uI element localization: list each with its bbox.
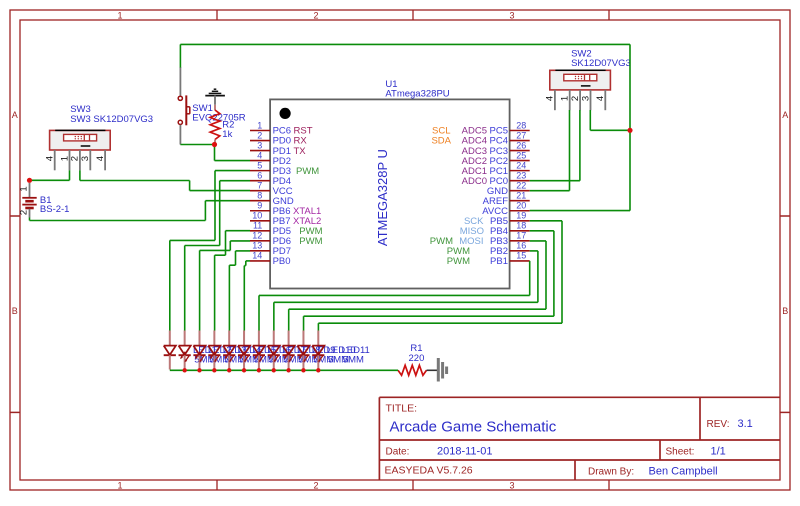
svg-text:4: 4 [257,150,262,160]
svg-text:ATmega328PU: ATmega328PU [385,88,449,99]
svg-text:4: 4 [545,96,556,101]
svg-text:1k: 1k [222,129,232,140]
svg-text:26: 26 [516,140,526,150]
svg-text:TITLE:: TITLE: [386,402,418,414]
svg-text:17: 17 [516,231,526,241]
svg-text:3: 3 [80,156,91,161]
svg-text:PB0: PB0 [273,256,291,267]
svg-text:1: 1 [117,480,122,490]
svg-text:Sheet:: Sheet: [666,447,695,458]
svg-text:Date:: Date: [386,447,410,458]
svg-text:4: 4 [595,96,606,101]
svg-text:4: 4 [45,156,56,161]
svg-text:2: 2 [70,156,81,161]
svg-text:13: 13 [252,241,262,251]
svg-text:9: 9 [257,201,262,211]
svg-text:19: 19 [516,211,526,221]
svg-text:12: 12 [252,231,262,241]
svg-text:SDA: SDA [431,136,451,147]
svg-text:B: B [12,306,18,316]
svg-text:PB1: PB1 [490,256,508,267]
svg-text:8: 8 [257,191,262,201]
svg-text:23: 23 [516,170,526,180]
svg-text:2: 2 [313,480,318,490]
svg-text:3: 3 [509,480,514,490]
svg-text:2: 2 [313,10,318,20]
svg-text:4: 4 [95,156,106,161]
svg-text:20: 20 [516,201,526,211]
svg-text:2: 2 [257,130,262,140]
svg-text:3: 3 [509,10,514,20]
svg-text:220: 220 [409,353,425,364]
svg-text:3.1: 3.1 [738,418,753,430]
svg-text:PWM: PWM [447,256,470,267]
svg-text:21: 21 [516,191,526,201]
svg-text:2: 2 [570,96,581,101]
svg-text:A: A [782,110,788,120]
svg-text:1/1: 1/1 [711,446,726,458]
svg-text:28: 28 [516,120,526,130]
svg-text:Drawn By:: Drawn By: [588,467,634,478]
svg-text:SK12D07VG3: SK12D07VG3 [571,58,631,69]
svg-text:1: 1 [257,120,262,130]
svg-text:5MM: 5MM [343,354,364,365]
svg-text:1: 1 [117,10,122,20]
svg-text:11: 11 [253,221,262,231]
svg-text:6: 6 [257,170,262,180]
svg-text:1: 1 [59,156,70,161]
svg-text:BS-2-1: BS-2-1 [40,204,70,215]
svg-text:15: 15 [516,251,526,261]
svg-text:14: 14 [252,251,262,261]
svg-text:7: 7 [257,180,262,190]
svg-text:5: 5 [257,160,262,170]
svg-text:3: 3 [257,140,262,150]
svg-text:10: 10 [252,211,262,221]
svg-text:B: B [782,306,788,316]
svg-text:ADC0: ADC0 [462,176,487,187]
svg-text:3: 3 [580,96,591,101]
svg-text:22: 22 [516,180,526,190]
svg-text:25: 25 [516,150,526,160]
svg-text:EASYEDA V5.7.26: EASYEDA V5.7.26 [385,465,473,477]
svg-text:REV:: REV: [707,419,730,430]
svg-text:Ben Campbell: Ben Campbell [649,466,718,478]
svg-text:PWM: PWM [299,236,322,247]
svg-text:2018-11-01: 2018-11-01 [437,446,492,458]
svg-text:TX: TX [294,146,307,157]
svg-text:A: A [12,110,18,120]
svg-text:Arcade Game Schematic: Arcade Game Schematic [390,419,557,436]
svg-text:1: 1 [18,186,29,191]
svg-text:16: 16 [516,241,526,251]
svg-text:2: 2 [18,210,29,215]
svg-text:SW3 SK12D07VG3: SW3 SK12D07VG3 [70,114,153,125]
svg-text:1: 1 [560,96,571,101]
svg-text:PWM: PWM [296,166,319,177]
svg-text:ATMEGA328P U: ATMEGA328P U [375,149,390,246]
svg-text:27: 27 [516,130,526,140]
svg-text:18: 18 [516,221,526,231]
svg-text:24: 24 [516,160,526,170]
